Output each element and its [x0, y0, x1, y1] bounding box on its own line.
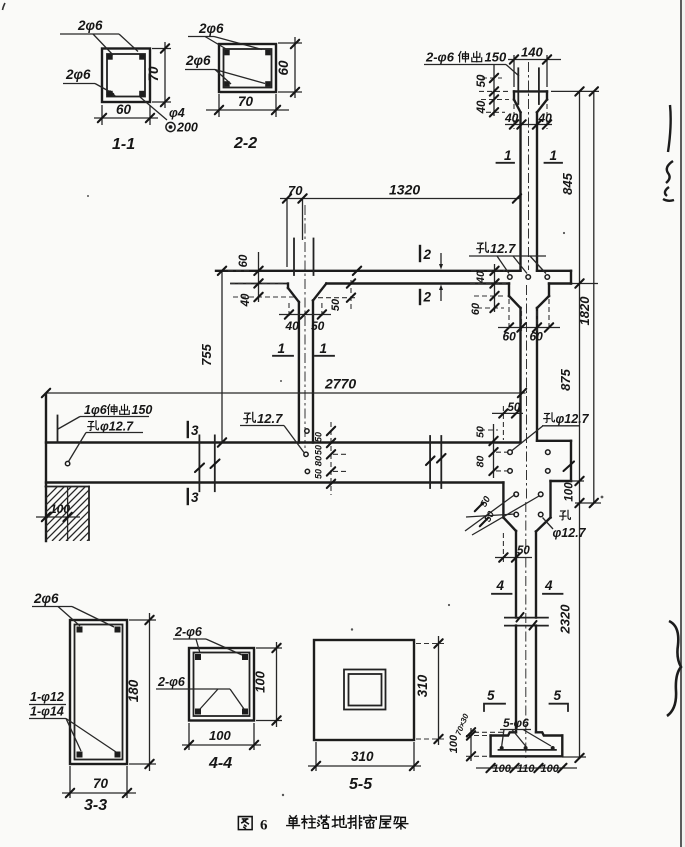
title 4-4 [208, 755, 232, 772]
svg-text:70: 70 [93, 776, 109, 791]
svg-text:3: 3 [191, 423, 199, 438]
svg-text:2-φ6: 2-φ6 [425, 50, 455, 65]
svg-text:2φ6: 2φ6 [198, 21, 224, 36]
right column upper shaft [521, 112, 538, 270]
dims 50 80 left of joint [475, 424, 508, 478]
dim 70 bottom of 2-2 [206, 94, 289, 117]
dim 2770 horizontal [42, 376, 526, 398]
svg-text:310: 310 [351, 749, 374, 764]
label 2phi6 of 3-3 [32, 591, 114, 627]
dim 140 top [508, 45, 561, 88]
dim 60 right of 2-2 [276, 37, 302, 98]
svg-text:50: 50 [508, 402, 521, 414]
section marks 2 2 on upper beam [420, 246, 443, 305]
svg-text:60: 60 [503, 330, 517, 344]
svg-text:12.7: 12.7 [490, 241, 516, 256]
svg-text:5-φ6: 5-φ6 [503, 716, 529, 730]
svg-text:100: 100 [50, 502, 70, 516]
svg-text:φ12.7: φ12.7 [553, 526, 587, 540]
svg-text:1φ6: 1φ6 [84, 403, 108, 417]
label 2-phi6 top of 4-4 [173, 625, 242, 655]
svg-text:1-φ12: 1-φ12 [30, 690, 64, 704]
beam break marks left [199, 435, 214, 491]
dims 60 40 left of middle joint [228, 252, 296, 307]
middle column rebars above beam [294, 239, 314, 276]
lower beam left end [45, 394, 47, 541]
holes right block [508, 450, 550, 473]
label 2-phi6 left of 4-4 [156, 675, 244, 709]
svg-text:1320: 1320 [389, 182, 420, 198]
title 5-5 [349, 776, 373, 793]
middle column shaft [299, 301, 313, 443]
holes below-beam block [514, 492, 543, 517]
svg-text:40: 40 [240, 293, 252, 307]
page right edge line [681, 0, 685, 847]
svg-text:φ4: φ4 [169, 106, 185, 120]
leaders and 50 50 dims to block holes [465, 494, 539, 535]
wall hatching [3, 485, 185, 541]
dim 100x110x100 below base [476, 763, 577, 775]
svg-text:50: 50 [314, 469, 324, 479]
scan specks [87, 195, 603, 796]
caption: figure 6 [238, 815, 407, 833]
svg-text:100: 100 [253, 670, 268, 692]
svg-text:50: 50 [314, 445, 324, 455]
svg-text:1: 1 [320, 341, 328, 356]
svg-text:1: 1 [278, 341, 286, 356]
svg-text:140: 140 [521, 45, 543, 60]
dim 310 right of 5-5 [415, 636, 444, 745]
dim 755 vertical [199, 267, 226, 447]
rebar 1phi6 projecting at beam left [57, 416, 59, 443]
section 2-2 stirrup [224, 49, 272, 88]
section 1-1 outer square [102, 49, 150, 103]
svg-text:100: 100 [541, 763, 560, 775]
masonry wall support [46, 487, 90, 541]
dim 60 bottom of 1-1 [94, 102, 158, 125]
wall dim extension [67, 487, 69, 542]
stray apostrophe top-left [3, 3, 6, 10]
svg-text:1: 1 [550, 148, 558, 163]
svg-text:6: 6 [260, 818, 268, 834]
handwritten brace right margin [667, 621, 681, 716]
section 1-1 corner rebars [107, 54, 145, 96]
title 3-3 [84, 797, 107, 814]
svg-text:180: 180 [126, 679, 141, 702]
corbel block right of column at lower beam [570, 441, 572, 481]
svg-text:2-2: 2-2 [233, 135, 257, 152]
section 5-5 outer square [314, 640, 414, 740]
svg-text:5: 5 [554, 688, 562, 703]
svg-text:50: 50 [311, 319, 325, 333]
svg-text:150: 150 [132, 403, 153, 417]
svg-text:100: 100 [493, 763, 512, 775]
svg-text:1-φ14: 1-φ14 [30, 705, 64, 719]
dim 180 right of 3-3 [126, 613, 156, 771]
svg-text:70: 70 [238, 94, 254, 109]
svg-text:50: 50 [475, 426, 487, 438]
title 2-2 [233, 135, 257, 152]
svg-text:110: 110 [517, 763, 535, 775]
dim 100 bearing [36, 502, 80, 521]
section 2-2 corner rebars [224, 50, 271, 87]
holes middle column/beam [304, 429, 310, 474]
dims 40 60 left of right joint [470, 264, 506, 315]
title 1-1 [112, 136, 135, 153]
dims 40 50 below middle joint [279, 303, 331, 333]
svg-text:50: 50 [314, 432, 324, 442]
label 2phi6 left of 2-2 [185, 53, 265, 84]
svg-text:5-5: 5-5 [349, 776, 373, 793]
svg-text:4: 4 [496, 578, 505, 593]
section 3-3 corner rebars [77, 627, 121, 758]
svg-text:2-φ6: 2-φ6 [157, 675, 186, 689]
dim 70 and 1320 line [280, 182, 521, 203]
svg-text:2: 2 [423, 247, 432, 262]
svg-text:5: 5 [487, 688, 495, 703]
svg-text:80: 80 [314, 455, 325, 466]
svg-text:845: 845 [560, 172, 575, 194]
section marks 5 5 [484, 688, 568, 711]
svg-text:4: 4 [544, 578, 553, 593]
dim 50 right of middle column haunch [318, 279, 356, 312]
svg-text:70: 70 [146, 66, 161, 82]
label 1phi6 shenchu 150 [58, 403, 152, 429]
svg-text:2φ6: 2φ6 [33, 591, 59, 606]
upper beam top edge [216, 270, 571, 272]
rebar 2-phi6 projecting from column head [518, 68, 539, 104]
middle column stub extension lines above beam [287, 199, 303, 268]
label 2phi6 top of 1-1 [60, 18, 138, 55]
svg-text:60: 60 [276, 60, 291, 76]
dim 70 right of 1-1 [146, 42, 171, 108]
section 4-4 outer rect [189, 648, 254, 721]
dim 100 below 4-4 [182, 723, 261, 750]
dim 50 and 40 left of head [476, 64, 510, 117]
dim 50 below block [495, 533, 532, 562]
svg-text:2φ6: 2φ6 [77, 18, 103, 33]
label kong phi12.7 right mid [512, 412, 590, 451]
svg-text:1-1: 1-1 [112, 136, 135, 153]
section 2-2 outer square [219, 44, 276, 92]
labels 1-phi12 1-phi14 of 3-3 [29, 690, 116, 752]
svg-text:875: 875 [558, 368, 573, 390]
svg-text:200: 200 [176, 121, 198, 135]
section 4-4 stirrup [194, 653, 250, 717]
right vertical dim chain 845/875/100/2320 [551, 87, 601, 762]
label kong 12.7 middle [240, 411, 304, 453]
section marks 3 3 [188, 422, 199, 505]
svg-text:60: 60 [116, 102, 132, 117]
svg-text:2320: 2320 [558, 604, 573, 635]
svg-text:100: 100 [448, 734, 460, 753]
dim stack 50 50 80 50 middle [314, 422, 347, 495]
label phi4 at200 stirrup callout [140, 97, 198, 135]
foundation base block [491, 732, 563, 756]
label 5-phi6 [500, 716, 551, 746]
stray tick on beam top [353, 267, 361, 275]
column shaft below beam to break [516, 531, 536, 618]
label 2phi6 top of 2-2 [188, 21, 262, 50]
dims 60 60 below right joint [498, 299, 560, 344]
section 5-5 inner pocket double square [344, 670, 386, 710]
svg-text:3: 3 [191, 490, 199, 505]
dim 50 above joint [492, 402, 523, 440]
dim 40 40 below head chamfer [504, 104, 552, 129]
svg-text:40: 40 [538, 111, 553, 125]
label 2phi6 left of 1-1 [63, 67, 116, 96]
label kong phi12.7 left [69, 420, 144, 462]
section marks 1 1 middle column [273, 341, 334, 356]
svg-text:φ12.7: φ12.7 [556, 412, 590, 426]
section 3-3 stirrup [75, 625, 123, 760]
section marks 4 4 [492, 578, 563, 594]
upper beam right end [570, 271, 572, 284]
label kong phi12.7 bottom right [543, 510, 587, 540]
lower beam top edge [46, 441, 571, 443]
section 1-1 stirrup [107, 54, 145, 97]
hole left beam [65, 461, 69, 465]
column break symbol [505, 618, 548, 626]
break slash on right block edge [564, 462, 575, 472]
upper beam bottom edge [326, 282, 571, 284]
svg-text:60: 60 [470, 302, 482, 315]
svg-text:40: 40 [475, 270, 487, 284]
svg-text:1820: 1820 [577, 296, 592, 326]
svg-text:60: 60 [530, 330, 544, 344]
right column shaft between beams [521, 308, 538, 441]
svg-text:φ12.7: φ12.7 [100, 420, 134, 434]
middle column haunch below beam [288, 284, 326, 303]
svg-text:50: 50 [476, 74, 488, 87]
dim 100 right of 4-4 [253, 642, 283, 727]
svg-text:70: 70 [288, 183, 303, 198]
column shaft break to foundation [516, 626, 536, 733]
section marks 1 1 upper column [497, 148, 563, 163]
handwritten squiggle right margin [663, 105, 674, 201]
section 4-4 corner rebars [195, 654, 248, 715]
section 3-3 outer rect [70, 620, 127, 764]
svg-text:100: 100 [564, 482, 576, 502]
dim 310 below 5-5 [308, 742, 421, 771]
svg-text:40: 40 [504, 111, 519, 125]
svg-text:2-φ6: 2-φ6 [174, 625, 203, 639]
svg-text:80: 80 [475, 456, 487, 468]
svg-text:2: 2 [423, 290, 432, 305]
middle column centerline [304, 205, 306, 448]
svg-text:1: 1 [504, 148, 512, 163]
lower beam bottom edge [46, 481, 571, 483]
label kong 12.7 upper beam [469, 241, 546, 274]
dims 100 and 70x30 left of base [448, 712, 506, 761]
holes in upper beam at column [508, 275, 550, 280]
label 2-phi6 shenchu 150 [424, 50, 519, 77]
svg-text:40: 40 [476, 100, 488, 114]
svg-text:2φ6: 2φ6 [185, 53, 211, 68]
right column centerline [526, 62, 529, 760]
right column haunch below upper beam [509, 284, 549, 309]
svg-text:40: 40 [285, 319, 300, 333]
svg-text:150: 150 [485, 50, 507, 65]
beam break marks right [430, 436, 441, 488]
svg-text:755: 755 [199, 343, 214, 365]
svg-text:3-3: 3-3 [84, 797, 107, 814]
svg-text:4-4: 4-4 [208, 755, 232, 772]
svg-text:50: 50 [330, 298, 342, 311]
svg-text:2770: 2770 [324, 376, 356, 392]
block below lower beam [503, 481, 550, 532]
dim 70 below 3-3 [62, 766, 136, 798]
svg-text:100: 100 [209, 728, 231, 743]
foundation rebar 5-phi6 [499, 746, 556, 750]
svg-text:2φ6: 2φ6 [65, 67, 91, 82]
right column top head [514, 91, 547, 112]
svg-text:60: 60 [238, 254, 250, 267]
svg-text:12.7: 12.7 [257, 411, 283, 426]
svg-text:310: 310 [415, 674, 430, 697]
